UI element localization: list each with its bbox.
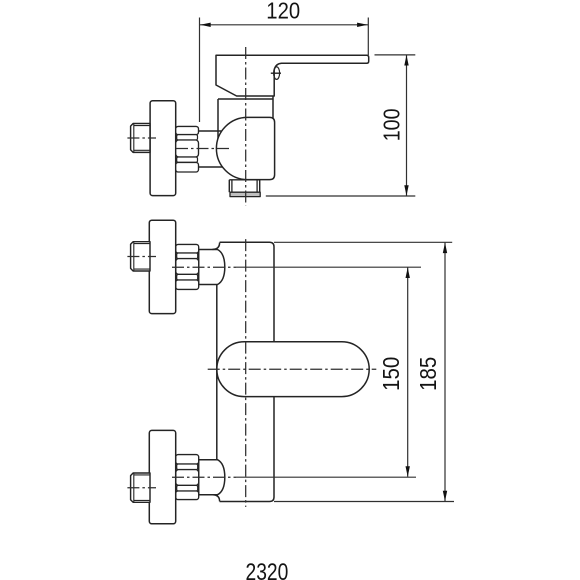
svg-text:150: 150	[378, 357, 404, 391]
svg-text:120: 120	[266, 0, 300, 23]
svg-text:185: 185	[415, 357, 441, 391]
svg-text:100: 100	[378, 109, 404, 142]
svg-text:2320: 2320	[246, 559, 289, 580]
